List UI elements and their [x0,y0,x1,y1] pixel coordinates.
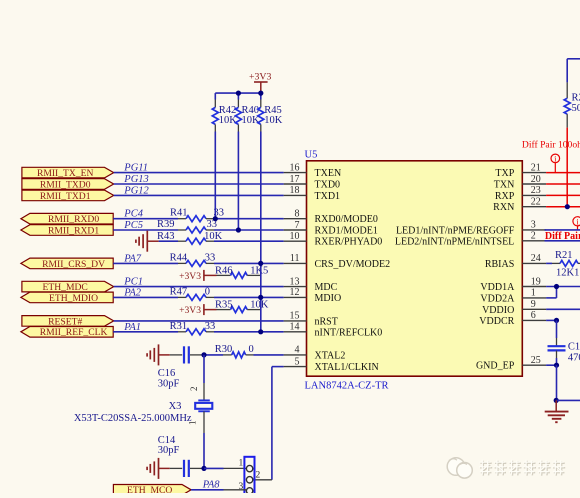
resistor R45 10K (vertical) [258,93,283,131]
net label flag RMII_RXD0 [21,213,113,225]
svg-text:RXD0/MODE0: RXD0/MODE0 [315,214,378,225]
pin 11 CRS_DV/MODE2 (left) [284,253,390,270]
pin 6 VDDCR (right) [479,310,546,327]
pin 10 RXER/PHYAD0 (left) [284,231,383,248]
ground symbol (C16) [147,344,170,365]
svg-text:1: 1 [531,288,536,299]
svg-text:LED1/nINT/nPME/REGOFF: LED1/nINT/nPME/REGOFF [396,225,515,236]
svg-text:nINT/REFCLK0: nINT/REFCLK0 [315,327,383,338]
svg-text:10: 10 [290,231,300,242]
pin 12 MDIO (left) [284,287,342,304]
wire ETH_MDC to IC [114,286,284,288]
net label flag RMII_REF_CLK [21,327,113,339]
label Diff Pair 100ohm [522,140,580,151]
svg-text:Diff Pair 100ohm: Diff Pair 100ohm [522,140,580,151]
svg-text:21: 21 [531,162,541,173]
svg-text:13: 13 [290,276,300,287]
connector X? 3-pin header [239,457,261,497]
svg-text:VDD1A: VDD1A [480,282,515,293]
resistor R41 33 (RXD0 series) [113,208,283,222]
svg-text:4: 4 [295,345,300,356]
watermark text (Chinese characters) [479,460,565,476]
svg-text:6: 6 [531,310,536,321]
IC U5 LAN8742A-CZ-TR body [305,150,523,392]
pin 20 TXN (right) [494,174,546,191]
svg-text:RESET#: RESET# [48,316,82,327]
svg-text:RXER/PHYAD0: RXER/PHYAD0 [315,237,383,248]
capacitor C15 470 [548,320,580,365]
svg-text:ETH_MCO: ETH_MCO [127,485,172,493]
net name PA2 [123,287,141,298]
pin 7 RXD1/MODE1 (left) [284,220,378,237]
svg-text:10K: 10K [204,231,223,242]
net label flag RMII_TXD1 [22,190,114,202]
svg-text:ETH_MDC: ETH_MDC [43,282,88,293]
svg-text:RMII_CRS_DV: RMII_CRS_DV [42,259,105,270]
wire RMII_TX_EN to IC [114,172,284,174]
junction dot REFCLK column [258,329,263,334]
net name PG11 [123,163,148,174]
svg-text:TXD0: TXD0 [315,180,341,191]
svg-text:0: 0 [205,286,210,297]
wire VDD2A up to VDD1A [546,287,556,298]
wire LED2 [545,240,580,242]
junction dot VDD1A [554,284,559,289]
net label flag RESET# [22,316,114,328]
wire RESET# to IC [114,320,284,322]
svg-text:5: 5 [295,356,300,367]
net label flag ETH_MCO [113,485,191,497]
pin 17 TXD0 (left) [284,174,340,191]
junction dot XTAL2/C16 [201,352,206,357]
net label flag RMII_TX_EN [22,167,114,179]
svg-text:nRST: nRST [315,316,338,327]
pin 5 XTAL1/CLKIN (left) [284,356,379,373]
wire R40 column down to RXD1 [237,132,239,231]
resistor R30 0 (XTAL2 series) [204,344,284,358]
svg-text:18: 18 [290,185,300,196]
svg-text:11: 11 [290,253,300,264]
capacitor C14 30pF [158,435,204,477]
svg-text:1: 1 [187,421,197,426]
svg-text:23: 23 [531,185,541,196]
net label flag ETH_MDC [22,281,114,293]
pin 23 RXP (right) [495,185,546,202]
svg-text:TXP: TXP [495,168,514,179]
wire RMII_TXD0 to IC [114,183,284,185]
pin 1 VDD2A (right) [480,288,546,305]
net name PA1 [123,322,141,333]
svg-text:16: 16 [290,162,300,173]
svg-text:22: 22 [531,197,541,208]
wire GND_EP [546,364,556,366]
junction dot GND_EP [554,363,559,368]
svg-text:X3: X3 [169,401,182,412]
svg-text:30pF: 30pF [158,445,180,456]
svg-text:8: 8 [295,209,300,220]
svg-text:12K1: 12K1 [556,267,579,278]
resistor R44 33 (CRS_DV series) [113,252,283,266]
svg-text:10K: 10K [264,115,283,126]
ground symbol (C14) [147,458,170,479]
directive circle-i (TXP) [551,153,560,172]
svg-text:R21: R21 [555,250,573,261]
svg-text:2: 2 [531,231,536,242]
svg-text:10K: 10K [219,115,238,126]
pin 19 VDD1A (right) [480,276,546,293]
svg-text:TXN: TXN [494,180,515,191]
svg-text:24: 24 [531,253,541,264]
svg-text:20: 20 [531,174,541,185]
wire R42 column down to RXD0 [214,132,216,219]
wire XTAL1 from IC to header pin 2 [255,367,284,480]
pin 24 RBIAS (right) [485,253,546,270]
wire VDDCR [546,319,556,321]
wire ETH_MCO to header pin 3 [191,489,246,491]
svg-text:PA8: PA8 [202,480,220,491]
junction dot C14/X3 [201,466,206,471]
junction dot MDIO column [258,295,263,300]
resistor R49 49R9 (top right, vertical) [564,59,580,128]
watermark logo (dove in circle) [447,458,472,478]
resistor R39 33 (RXD1 series) [113,219,283,233]
svg-text:+3V3: +3V3 [179,305,201,316]
pin 4 XTAL2 (left) [284,345,346,362]
svg-text:MDIO: MDIO [315,293,342,304]
resistor R47 0 (MDIO series) [113,286,283,300]
svg-text:33: 33 [205,321,216,332]
pin 25 GND_EP (right) [476,355,546,372]
wire R45 column down to nINT node [260,132,262,332]
ground symbol (R43) [136,231,159,252]
svg-text:LED2/nINT/nPME/nINTSEL: LED2/nINT/nPME/nINTSEL [395,236,514,247]
svg-text:R35: R35 [215,300,233,311]
svg-text:7: 7 [295,220,300,231]
power port +3V3 and resistor R46 1K5 (CRS_DV pullup) [179,265,268,282]
svg-text:+3V3: +3V3 [179,271,201,282]
wire GND_EP down [556,365,558,400]
junction dots top rail [236,91,264,96]
directive circle-i (LED1) [573,216,580,230]
svg-text:X53T-C20SSA-25.000MHz: X53T-C20SSA-25.000MHz [74,413,192,424]
net name PA7 [123,253,141,264]
pin 2 LED2/nINT/nPME/nINTSEL (right) [395,231,546,248]
pin 14 nINT/REFCLK0 (left) [284,322,383,339]
svg-text:9: 9 [531,299,536,310]
svg-text:RXD1/MODE1: RXD1/MODE1 [315,226,378,237]
wire +3V3 rail horizontal [215,92,260,94]
svg-text:470: 470 [568,352,580,363]
svg-text:0: 0 [249,344,254,355]
wire TXN diff pair [546,183,580,185]
resistor R21 12K1 (RBIAS) [546,250,580,279]
svg-text:VDDIO: VDDIO [482,305,514,316]
pin 18 TXD1 (left) [284,185,340,202]
svg-text:1: 1 [239,458,244,468]
svg-text:CRS_DV/MODE2: CRS_DV/MODE2 [315,259,391,270]
pin 21 TXP (right) [495,162,546,179]
resistor R40 10K (vertical) [235,93,260,131]
wire TXP diff pair [546,172,580,174]
svg-text:MDC: MDC [315,282,338,293]
wire R49 to RXN (red vertical) [566,128,568,207]
wire VDD1A [546,286,580,288]
pin 22 RXN (right) [493,197,546,214]
net name PG13 [123,174,149,185]
net label flag RMII_TXD0 [22,179,114,191]
resistor R42 10K (vertical) [212,93,237,131]
svg-text:50: 50 [572,103,580,114]
wire RXN diff pair [546,206,580,208]
svg-text:RBIAS: RBIAS [485,259,514,270]
svg-text:C15: C15 [568,342,580,353]
junction dot RXN [565,204,570,209]
pin 3 LED1/nINT/nPME/REGOFF (right) [396,220,546,237]
svg-text:17: 17 [290,174,300,185]
pin 13 MDC (left) [284,276,338,293]
svg-text:19: 19 [531,276,541,287]
svg-text:R46: R46 [215,265,233,276]
junction dot CRS_DV column [258,261,263,266]
pin 15 nRST (left) [284,311,338,328]
net label flag RMII_RXD1 [21,225,113,237]
svg-text:RMII_REF_CLK: RMII_REF_CLK [40,327,108,338]
net label flag RMII_CRS_DV [21,258,113,270]
svg-text:VDD2A: VDD2A [480,293,515,304]
junction dot RXD0/R42 [213,216,218,221]
junction dot RXD1/R40 [236,227,241,232]
svg-text:25: 25 [531,355,541,366]
pin 9 VDDIO (right) [482,299,546,316]
svg-text:XTAL1/CLKIN: XTAL1/CLKIN [315,362,379,373]
svg-text:R43: R43 [157,231,175,242]
power port +3V3 and resistor R35 10K (MDIO pullup) [179,300,269,317]
resistor R31 33 (REF_CLK series) [113,321,283,335]
capacitor C16 30pF [158,346,204,389]
crystal X3 X53T-C20SSA-25.000MHz [74,355,212,469]
ground symbol (bottom right) [545,400,569,422]
svg-text:30pF: 30pF [158,378,180,389]
svg-text:3: 3 [531,220,536,231]
svg-text:R47: R47 [170,286,188,297]
net name PG12 [123,185,149,196]
net name PC4 [123,209,143,220]
svg-text:RMII_RXD1: RMII_RXD1 [48,225,99,236]
pin 8 RXD0/MODE0 (left) [284,209,378,226]
svg-text:12: 12 [290,287,300,298]
net name PC1 [123,277,143,288]
svg-text:R31: R31 [170,321,188,332]
svg-text:2: 2 [189,387,199,392]
svg-text:R30: R30 [215,344,233,355]
wire VDDIO [546,308,580,310]
resistor R43 10K (RXER pulldown) [157,231,284,244]
wire GND node to right [556,399,580,401]
junction dot VDDCR [554,318,559,323]
svg-text:RMII_TXD1: RMII_TXD1 [40,191,91,202]
svg-text:U5: U5 [305,150,318,161]
svg-text:RXP: RXP [495,191,515,202]
svg-text:RMII_TX_EN: RMII_TX_EN [37,168,94,179]
svg-text:10K: 10K [250,300,269,311]
wire RXP diff pair [546,194,580,196]
svg-text:RMII_RXD0: RMII_RXD0 [48,214,99,225]
label Diff Pair (LED2) [545,231,580,242]
svg-text:R44: R44 [170,252,188,263]
svg-text:15: 15 [290,311,300,322]
svg-text:1K5: 1K5 [250,265,268,276]
svg-text:TXD1: TXD1 [315,191,341,202]
pin 16 TXEN (left) [284,162,342,179]
net name PC5 [123,220,143,231]
svg-text:R41: R41 [170,208,188,219]
junction dot GND node [554,398,559,403]
svg-text:TXEN: TXEN [315,168,342,179]
svg-text:14: 14 [290,322,300,333]
svg-text:2: 2 [256,471,261,481]
svg-text:R39: R39 [157,219,175,230]
wire LED1 [545,229,580,231]
svg-text:33: 33 [205,252,216,263]
svg-text:LAN8742A-CZ-TR: LAN8742A-CZ-TR [305,381,389,392]
svg-text:RMII_TXD0: RMII_TXD0 [40,179,91,190]
net name PA8 [202,480,220,491]
net label flag ETH_MDIO [21,292,113,304]
svg-text:VDDCR: VDDCR [479,316,514,327]
wire C14 node to header pin 1 [204,467,246,469]
wire RMII_TXD1 to IC [114,194,284,196]
svg-text:XTAL2: XTAL2 [315,350,346,361]
svg-text:GND_EP: GND_EP [476,361,515,372]
svg-text:+3V3: +3V3 [249,72,271,83]
svg-text:ETH_MDIO: ETH_MDIO [49,293,98,304]
power port +3V3 (top) [249,72,271,94]
svg-text:RXN: RXN [493,202,514,213]
